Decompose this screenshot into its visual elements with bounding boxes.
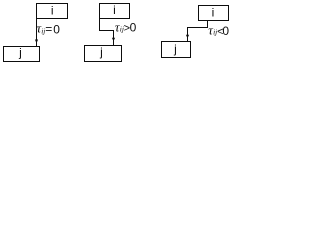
wire from box i down-right-down to box j (subfig 2) xyxy=(100,19,114,46)
arrowhead into box j (subfig 1) xyxy=(35,40,38,44)
svg-text:0: 0 xyxy=(53,22,60,36)
activity box i (subfig 3) xyxy=(199,6,229,21)
svg-text:i: i xyxy=(113,3,116,17)
wire from box i down-left-down to box j (subfig 3) xyxy=(188,21,208,42)
wire from box i down to box j (subfig 1) xyxy=(36,19,38,47)
label tau_ij>0 (subfig 2) xyxy=(115,19,137,34)
activity box j (subfig 2) xyxy=(85,45,122,62)
activity box j (subfig 3) xyxy=(162,42,191,58)
label tau_ij<0 (subfig 3) xyxy=(208,22,229,38)
activity box j (subfig 1) xyxy=(4,45,40,61)
svg-text:=: = xyxy=(45,22,52,36)
svg-text:i: i xyxy=(51,4,54,18)
svg-text:j: j xyxy=(173,42,177,56)
svg-text:j: j xyxy=(18,45,22,59)
activity box i (subfig 1) xyxy=(37,4,68,19)
svg-text:j: j xyxy=(99,45,103,59)
label tau_ij=0 (subfig 1) xyxy=(37,21,61,37)
arrowhead into box j (subfig 3) xyxy=(186,35,189,39)
svg-text:0: 0 xyxy=(130,21,137,35)
svg-text:i: i xyxy=(212,6,215,20)
activity box i (subfig 2) xyxy=(100,3,130,19)
svg-text:0: 0 xyxy=(222,24,229,38)
arrowhead into box j (subfig 2) xyxy=(112,38,115,42)
